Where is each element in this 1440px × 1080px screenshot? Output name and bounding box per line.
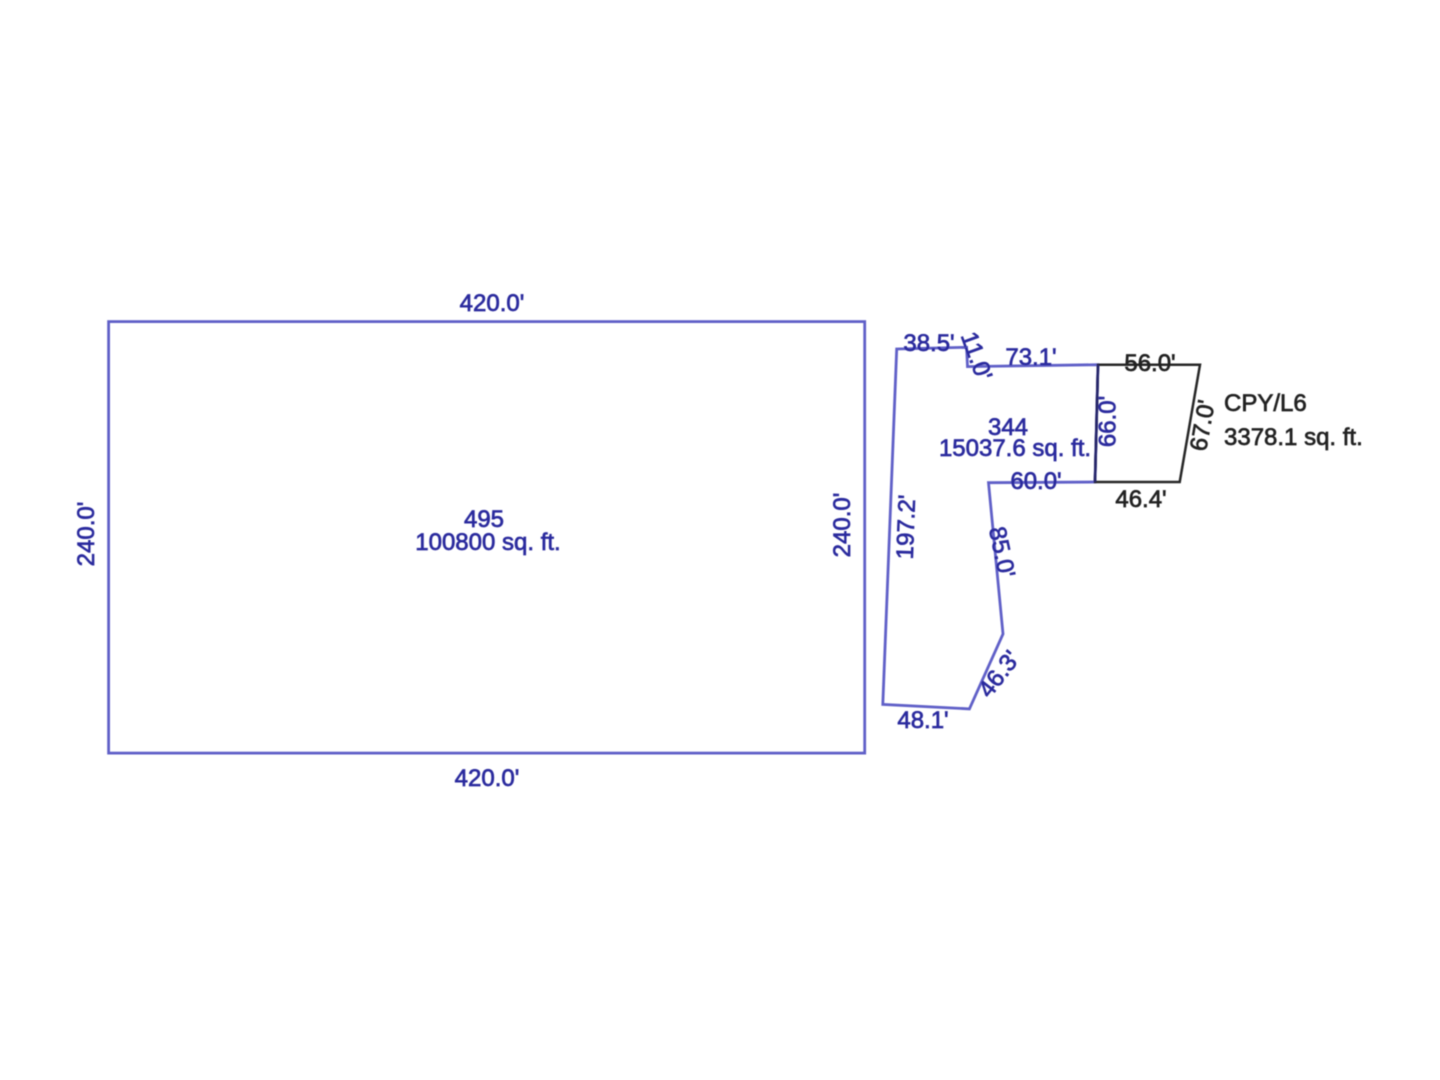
parcel 495 outline (420.0 x 240.0 rectangle) [109, 322, 865, 753]
svg-text:56.0': 56.0' [1124, 350, 1175, 377]
svg-text:66.0': 66.0' [1095, 396, 1122, 447]
parcel 344 outline (irregular polygon) [883, 347, 1098, 709]
svg-text:46.4': 46.4' [1115, 486, 1166, 513]
parcel CPY/L6 outline (black quadrilateral) [1095, 365, 1200, 482]
svg-text:420.0': 420.0' [460, 290, 525, 317]
svg-text:197.2': 197.2' [892, 494, 921, 560]
svg-text:60.0': 60.0' [1010, 468, 1061, 495]
svg-text:15037.6 sq. ft.: 15037.6 sq. ft. [939, 435, 1091, 462]
svg-text:38.5': 38.5' [903, 330, 954, 357]
svg-text:3378.1 sq. ft.: 3378.1 sq. ft. [1224, 424, 1363, 451]
svg-text:420.0': 420.0' [455, 765, 520, 792]
svg-text:CPY/L6: CPY/L6 [1224, 390, 1307, 417]
svg-text:48.1': 48.1' [897, 707, 948, 734]
shared edge 66.0 (dark navy overlap) [1095, 365, 1098, 482]
svg-text:73.1': 73.1' [1005, 344, 1056, 371]
svg-text:240.0': 240.0' [829, 493, 856, 558]
svg-text:240.0': 240.0' [73, 502, 100, 567]
svg-text:100800 sq. ft.: 100800 sq. ft. [415, 529, 560, 556]
